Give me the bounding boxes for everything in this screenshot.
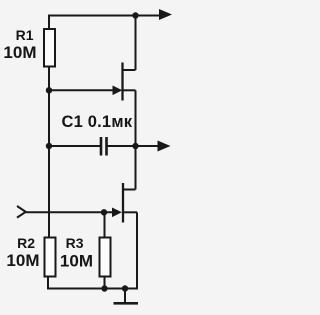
- capacitor C1 left plate: [100, 137, 103, 156]
- resistor R2 body: [45, 238, 56, 277]
- wire: output line to terminal: [136, 145, 159, 147]
- svg-text:10М: 10М: [60, 252, 93, 271]
- wire: R3 bottom lead: [104, 277, 106, 289]
- transistor VT1: drain tap: [123, 69, 136, 71]
- wire: top supply rail: [49, 16, 160, 30]
- node: ground tap on rail: [122, 285, 128, 291]
- terminal arrow: top right output: [159, 9, 172, 20]
- wire: C1 left lead: [49, 145, 100, 147]
- node: output junction: [132, 143, 138, 149]
- wire: input line to VT2 gate: [26, 211, 114, 213]
- svg-text:R2: R2: [17, 235, 35, 251]
- transistor VT1: gate arrowhead: [113, 86, 123, 96]
- transistor VT2: drain tap: [123, 189, 136, 191]
- svg-text:R3: R3: [66, 235, 84, 251]
- transistor VT2: gate arrowhead: [112, 208, 122, 218]
- transistor VT1: source tap: [123, 89, 136, 91]
- wire: output node down to VT2 drain: [135, 146, 137, 190]
- transistor VT2 (lower JFET): channel: [122, 183, 124, 223]
- wire: left rail R1 bottom to R2 top: [48, 67, 50, 238]
- input terminal chevron: [17, 206, 26, 218]
- svg-text:R1: R1: [16, 27, 34, 43]
- resistor R1 body: [44, 29, 55, 67]
- node: R3 top on input line: [101, 209, 107, 215]
- node: R3 bottom on ground rail: [101, 285, 107, 291]
- ground: bar: [114, 302, 139, 305]
- svg-text:C1 0.1мк: C1 0.1мк: [62, 113, 133, 131]
- node: gate of VT1 on left rail: [46, 87, 52, 93]
- wire: VT1 drain lead from top rail: [135, 16, 137, 71]
- wire: VT1 gate line from node A: [49, 89, 114, 91]
- svg-text:10М: 10М: [6, 251, 39, 270]
- resistor R3 body: [100, 238, 111, 277]
- ground: stem: [124, 289, 126, 303]
- wire: C1 right lead to output node: [108, 145, 136, 147]
- node: top rail junction: [132, 12, 138, 18]
- transistor VT1 (upper JFET): channel: [121, 63, 123, 101]
- wire: VT2 source down and bottom ground rail: [48, 212, 137, 288]
- capacitor C1 right plate: [105, 137, 108, 156]
- node: C1 left on left rail: [46, 143, 52, 149]
- terminal arrow: middle right output: [158, 141, 171, 152]
- transistor VT2: source tap: [123, 211, 137, 213]
- wire: R3 top lead: [104, 212, 106, 237]
- svg-text:10М: 10М: [3, 43, 36, 62]
- wire: VT1 source down to output node: [135, 90, 137, 146]
